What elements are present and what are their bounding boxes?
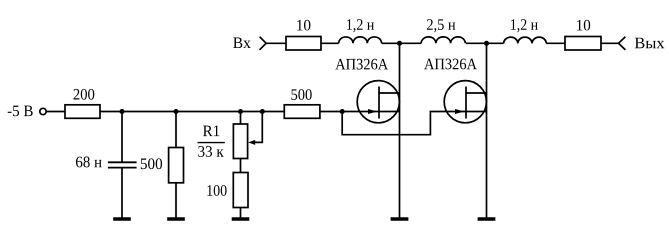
wire R4 to node C — [100, 111, 122, 113]
wire R3 to output chevron — [601, 42, 619, 44]
transistor VT2 body circle — [444, 81, 486, 123]
wire node A to L2 — [400, 42, 422, 44]
wire R5 to node G — [320, 111, 342, 113]
wire node D to node E — [176, 111, 241, 113]
wire node E to potentiometer R1 — [240, 112, 242, 125]
supply terminal circle — [40, 108, 46, 114]
ground (VT2 source) — [478, 217, 496, 220]
node D junction dot — [173, 109, 178, 114]
value label 1,2 н — [347, 19, 374, 32]
node A junction dot — [397, 41, 402, 46]
input label Вх — [233, 38, 251, 49]
wire R6 to ground — [175, 183, 177, 218]
wire node F to R5 — [262, 111, 284, 113]
value label 100 — [207, 185, 226, 196]
wire node D to R6 — [175, 112, 177, 148]
transistor VT2 gate arrow — [455, 109, 464, 114]
node B junction dot — [484, 41, 489, 46]
inductor L1 1,2 н — [339, 37, 382, 43]
wire node E to node F — [241, 111, 263, 113]
wire L1 to node A — [382, 42, 400, 44]
ground (R7) — [232, 217, 250, 220]
wire L2 to node B — [466, 42, 487, 44]
wire node G to VT1 gate — [342, 111, 379, 113]
value label 10 — [297, 20, 310, 31]
value label 500 — [141, 158, 162, 169]
designator label R1 — [203, 126, 219, 137]
transistor VT2 label АП326А — [424, 59, 477, 70]
input terminal chevron — [260, 37, 267, 50]
wiper wire from node F — [255, 112, 263, 143]
transistor VT2 source lead — [466, 111, 487, 113]
transistor VT2 channel — [465, 87, 467, 119]
value label 1,2 н — [511, 19, 538, 32]
transistor VT1 drain lead — [379, 92, 400, 94]
value label 68 н — [76, 157, 102, 168]
wire terminal to R4 — [46, 111, 65, 113]
wire L3 to R3 — [546, 42, 565, 44]
output label Вых — [635, 38, 665, 49]
transistor VT1 label АП326А — [335, 59, 388, 70]
fraction line of R1 label — [198, 142, 225, 144]
wire node A to VT1 drain down to ground — [399, 43, 401, 218]
wire node C to node D — [122, 111, 176, 113]
value label 2,5 н — [427, 19, 455, 32]
capacitor C1 top wire — [121, 112, 123, 163]
value label 10 — [577, 20, 590, 31]
resistor R2 value 10 (left) — [286, 37, 321, 51]
value label 33 к — [198, 146, 223, 157]
ground (VT1 source) — [391, 217, 409, 220]
node E junction dot — [238, 109, 243, 114]
transistor VT1 channel — [378, 87, 380, 119]
wire R1 to R7 — [240, 159, 242, 173]
resistor R3 value 10 (right) — [565, 37, 601, 51]
supply label -5 В — [8, 106, 33, 117]
value label 500 — [291, 89, 311, 100]
resistor R4 value 200 — [65, 105, 100, 119]
wire node B to L3 — [487, 42, 504, 44]
inductor L3 1,2 н — [504, 37, 547, 43]
ground (capacitor C1) — [113, 217, 131, 220]
transistor VT2 drain lead — [466, 92, 487, 94]
wire R7 to ground — [240, 208, 242, 218]
resistor R7 value 100 — [233, 173, 248, 208]
capacitor C1 bottom wire — [121, 168, 123, 218]
transistor VT1 source lead — [379, 111, 400, 113]
wiper arrowhead — [248, 140, 255, 145]
node C junction dot — [119, 109, 124, 114]
ground (R6) — [167, 217, 185, 220]
wire input to R2 — [266, 42, 286, 44]
resistor R6 value 500 (vertical) — [169, 148, 184, 183]
node G junction dot — [340, 109, 345, 114]
value label 200 — [74, 89, 95, 100]
inductor L2 2,5 н — [421, 37, 465, 43]
gate bypass wire node G to VT2 gate — [342, 112, 466, 135]
transistor VT1 body circle — [357, 81, 399, 123]
output terminal chevron — [619, 37, 626, 50]
wire R2 to L1 — [321, 42, 339, 44]
potentiometer R1 body — [233, 124, 247, 159]
wire node B to VT2 drain down to ground — [486, 43, 488, 218]
capacitor C1 68 н plates — [108, 162, 137, 167]
resistor R5 value 500 (horizontal) — [284, 105, 320, 119]
node F junction dot — [260, 109, 265, 114]
transistor VT1 gate arrow — [368, 109, 377, 114]
